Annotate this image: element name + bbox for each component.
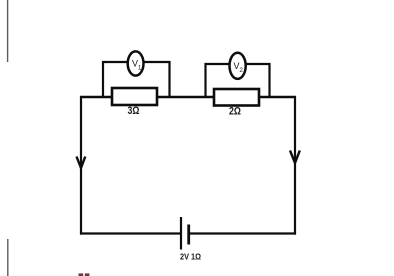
wire: bottom-right conductor from battery: [190, 232, 297, 234]
wire: right vertical conductor: [294, 96, 296, 235]
voltmeter V1 branch: left riser wire: [102, 61, 104, 98]
current arrow (left branch, downward): [77, 157, 86, 169]
voltmeter V2 branch: top wire: [205, 63, 271, 65]
resistor R1 (3 ohm) body: [112, 88, 157, 105]
resistor R2 (2 ohm) body: [214, 89, 259, 106]
battery cell: short negative plate: [187, 225, 190, 245]
wire: bottom-left conductor to battery: [80, 232, 181, 234]
wire: top conductor: [80, 96, 296, 98]
cropped red watermark mark 2: [85, 273, 90, 276]
svg-text:2Ω: 2Ω: [229, 106, 241, 118]
voltmeter V1 branch: right riser wire: [168, 61, 170, 98]
voltmeter V1 body: [128, 51, 144, 75]
battery cell: long positive plate: [180, 217, 182, 250]
cropped red watermark mark 1: [79, 273, 84, 276]
voltmeter V2 branch: left riser wire: [204, 63, 206, 98]
svg-text:3Ω: 3Ω: [128, 105, 140, 117]
page margin line (bottom-left gray): [7, 239, 9, 276]
wire: left vertical conductor: [80, 96, 82, 235]
page margin line (top-left gray): [7, 0, 9, 62]
voltmeter V2 body: [230, 53, 246, 79]
current arrow (right branch, downward): [290, 151, 300, 164]
voltmeter V2 branch: right riser wire: [268, 63, 270, 98]
voltmeter V1 branch: top wire: [102, 61, 171, 63]
svg-text:2V 1Ω: 2V 1Ω: [180, 252, 201, 261]
